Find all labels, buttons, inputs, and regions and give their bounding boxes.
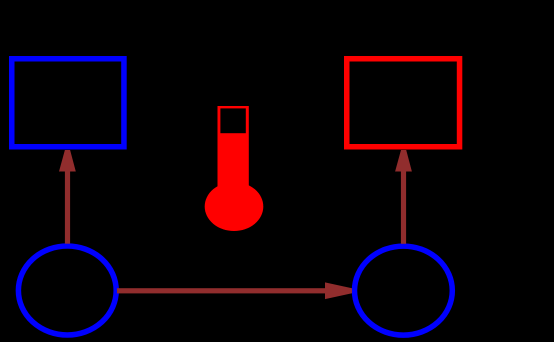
node E1: left blue ellipse — [18, 246, 116, 335]
thermometer T1: stem — [218, 106, 249, 211]
wire A1: arrow E1 to B1, shaft — [65, 171, 70, 244]
wire A3: arrow E1 to E2, head — [325, 282, 352, 299]
wire A2: arrow E2 to R1, shaft — [401, 171, 406, 244]
node B1: blue rectangle (top-left box) — [12, 59, 124, 147]
wire A1: arrow E1 to B1, head — [59, 150, 76, 172]
thermometer T1: bulb — [205, 182, 264, 231]
thermometer T1: unfilled window — [220, 108, 245, 133]
node R1: red rectangle (top-right box) — [347, 59, 460, 147]
wire A2: arrow E2 to R1, head — [395, 150, 412, 172]
wire A3: arrow E1 to E2, shaft — [117, 288, 326, 293]
node E2: right blue ellipse — [355, 246, 453, 335]
